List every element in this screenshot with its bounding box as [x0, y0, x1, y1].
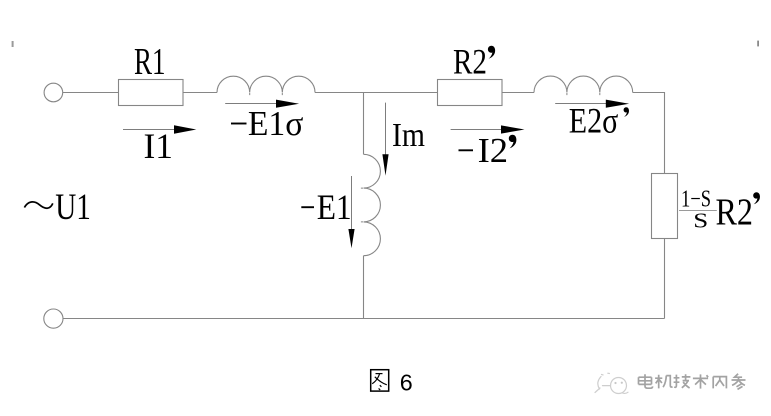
svg-text:R2: R2 [716, 192, 754, 234]
svg-text:E2σ: E2σ [569, 101, 619, 141]
svg-text:I1: I1 [144, 126, 174, 166]
svg-text:E1σ: E1σ [248, 104, 304, 143]
svg-text:R1: R1 [134, 41, 166, 83]
svg-text:E1: E1 [317, 187, 352, 227]
svg-text:I2: I2 [478, 131, 509, 170]
svg-text:U1: U1 [55, 187, 91, 228]
svg-text:6: 6 [400, 369, 413, 395]
svg-text:S: S [693, 209, 708, 233]
svg-text:Im: Im [392, 116, 425, 154]
svg-text:R2: R2 [453, 42, 487, 82]
